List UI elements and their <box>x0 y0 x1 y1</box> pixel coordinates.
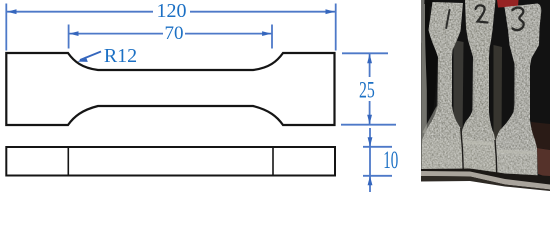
bright shoulder edge tab 2 <box>462 142 494 145</box>
shading left edge of specimen 3 neck <box>514 64 519 124</box>
shading left edge of specimen 1 neck <box>437 58 443 113</box>
extension line bottom (25 dim) <box>341 124 396 126</box>
lighter face of bottom tab 1 <box>422 139 464 170</box>
gray column along photo left edge <box>421 4 427 172</box>
extension line right (120 dim) <box>335 4 337 51</box>
extension line left (70 dim) <box>68 25 70 49</box>
bright shoulder edge tab 3 <box>496 151 537 153</box>
digit 2 on specimen 2 <box>476 5 488 22</box>
specimen 3 body <box>495 4 542 177</box>
white slant below photo <box>419 181 550 195</box>
seam between tab 2 and tab 3 <box>495 140 497 175</box>
photograph of three printed specimens <box>419 0 550 195</box>
shading left edge of specimen 2 neck <box>472 56 477 119</box>
table shadow band under specimens <box>421 169 550 185</box>
dimension line 25 <box>369 54 371 77</box>
lighter face of bottom tab 3 <box>495 151 538 176</box>
arrow up 25 <box>367 54 372 64</box>
arrow down to top of 10 <box>368 137 373 147</box>
leader arrow R12 <box>80 52 101 61</box>
arrow down 25 <box>367 115 372 125</box>
side view internal line right <box>272 147 274 176</box>
black slot between left column and specimen 1 <box>425 3 437 126</box>
background specimen shadow between 1 and 2 <box>454 40 464 140</box>
arrow right 120 <box>326 9 336 14</box>
dimension line 70 <box>69 33 163 35</box>
arrow up to bottom of 10 <box>368 176 373 186</box>
seam between tab 1 and tab 2 <box>461 128 463 170</box>
gray sliver photo left edge <box>421 0 425 43</box>
svg-text:R12: R12 <box>104 45 137 67</box>
table light edge band <box>421 171 550 190</box>
photo background <box>421 0 550 191</box>
bright flare edge specimen 1 <box>424 107 438 133</box>
table dark front band <box>421 176 550 191</box>
side view internal line left <box>67 147 69 176</box>
dimension line 10 <box>369 128 371 192</box>
specimen 1 body <box>422 2 464 170</box>
extension line top (10 dim) <box>363 146 392 148</box>
extension line left (120 dim) <box>5 4 7 51</box>
lighter face of bottom tab 2 <box>461 142 496 171</box>
svg-text:120: 120 <box>157 0 187 22</box>
extension line top (25 dim) <box>342 52 388 54</box>
extension line bottom (10 dim) <box>363 175 392 177</box>
side view rectangle <box>6 147 335 176</box>
dark maroon patch right <box>531 122 550 150</box>
arrow left 120 <box>7 9 17 14</box>
top view outline (dog-bone) <box>6 53 334 125</box>
extension line right (70 dim) <box>271 25 273 49</box>
svg-text:25: 25 <box>359 78 375 104</box>
arrow left 70 <box>69 31 79 36</box>
dimension line 120 <box>7 11 153 13</box>
arrow right 70 <box>262 31 272 36</box>
svg-text:70: 70 <box>165 23 184 44</box>
svg-text:10: 10 <box>383 147 398 174</box>
background specimen shadow between 2 and 3 <box>494 45 503 145</box>
specimen 2 body <box>461 0 497 172</box>
red object top between specimens 2 and 3 <box>497 0 519 8</box>
red-brown band right <box>537 148 550 178</box>
darker top-left corner of photo <box>425 0 434 7</box>
digit 1 on specimen 1 <box>446 10 449 28</box>
digit 3 on specimen 3 <box>513 8 524 31</box>
